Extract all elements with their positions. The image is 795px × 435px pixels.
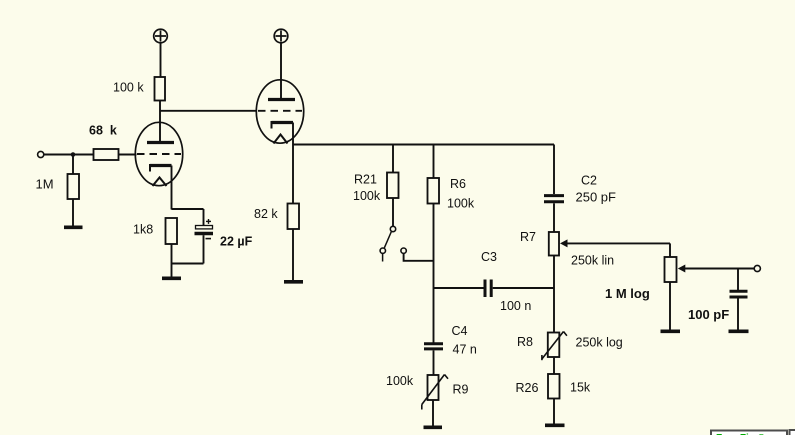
svg-text:C2: C2	[581, 174, 597, 188]
svg-text:1k8: 1k8	[133, 223, 153, 237]
wire R9 to ground	[432, 400, 434, 426]
wire 100k to V1 anode	[159, 101, 161, 143]
wire V1 anode to V2 grid	[160, 110, 257, 112]
wire 68k to V1 grid	[119, 154, 137, 156]
svg-text:47 n: 47 n	[453, 343, 477, 357]
resistor 100k (V1 anode load)	[155, 77, 166, 101]
wire R6 down to C4	[433, 204, 435, 343]
potentiometer R8	[542, 332, 567, 361]
output terminal J2	[754, 265, 760, 271]
svg-text:100 k: 100 k	[113, 81, 144, 95]
potentiometer R7	[549, 232, 670, 256]
wire R7 down to R8	[553, 256, 555, 333]
svg-text:22 µF: 22 µF	[220, 235, 253, 249]
wire junction to 100pF	[737, 269, 739, 291]
resistor R26	[548, 374, 560, 399]
svg-text:R9: R9	[453, 383, 469, 397]
wire C3 left	[434, 287, 484, 289]
wire C2 to R7	[553, 203, 555, 232]
svg-text:100k: 100k	[353, 189, 381, 203]
wire 100pF to ground	[737, 299, 739, 330]
svg-text:250 pF: 250 pF	[576, 190, 617, 205]
wire 1M to ground	[72, 199, 74, 226]
ground under 1M log	[661, 329, 681, 333]
svg-text:1 M log: 1 M log	[605, 286, 650, 301]
wire 82k to ground	[292, 229, 294, 280]
wire supply to V2 anode	[280, 43, 282, 99]
svg-text:100k: 100k	[386, 374, 414, 388]
svg-text:C3: C3	[481, 250, 497, 264]
watermark box bottom right	[711, 430, 795, 435]
ground under 100pF	[729, 329, 749, 333]
wire input to node A	[44, 154, 94, 156]
capacitor C4	[424, 344, 443, 349]
wire V1 cathode node	[172, 208, 204, 210]
ground under 1k8	[162, 276, 181, 280]
svg-text:100 n: 100 n	[500, 299, 531, 313]
wire pot bottom to ground	[669, 282, 671, 330]
supply terminal + (right)	[274, 29, 288, 43]
wire C3 right	[493, 287, 554, 289]
wire node A down to 1M	[72, 155, 74, 175]
svg-text:82 k: 82 k	[254, 207, 278, 221]
wire C4 to R9	[433, 350, 435, 375]
ground under R26	[545, 423, 565, 427]
wire cathode bottom joining	[172, 263, 204, 265]
capacitor 100pF	[730, 291, 748, 297]
svg-text:R21: R21	[354, 173, 377, 187]
wire main output bus	[293, 144, 554, 146]
svg-text:R6: R6	[450, 177, 466, 191]
wire R7 wiper to 1M log pot	[669, 243, 671, 257]
svg-text:250k lin: 250k lin	[571, 254, 614, 268]
potentiometer 1M log	[665, 257, 755, 282]
wire switch to R6 branch	[404, 253, 434, 260]
svg-text:C4: C4	[452, 324, 468, 338]
resistor 68k	[94, 149, 119, 160]
svg-text:100 pF: 100 pF	[688, 307, 729, 322]
capacitor C3	[485, 280, 491, 298]
wire cathode node to 22uF	[203, 209, 205, 226]
capacitor 22uF electrolytic	[195, 219, 214, 239]
triode V1	[135, 122, 182, 209]
switch S1	[380, 226, 406, 261]
node A junction dot	[71, 152, 76, 157]
resistor R21	[387, 173, 399, 199]
svg-text:250k log: 250k log	[576, 336, 623, 350]
wire supply to 100k	[160, 43, 162, 77]
svg-text:100k: 100k	[447, 197, 475, 211]
resistor 1k8	[166, 218, 178, 244]
wire bus to R21	[392, 145, 394, 173]
svg-text:1M: 1M	[36, 177, 54, 192]
svg-text:68 k: 68 k	[89, 124, 117, 138]
wire bus to R6	[433, 145, 435, 179]
supply terminal + (left)	[154, 29, 168, 43]
ground under 82k	[284, 280, 303, 284]
resistor 1M	[68, 174, 80, 199]
wire 1k8 down	[171, 244, 173, 277]
ground under R9	[424, 425, 443, 429]
wire bus corner down to C2	[553, 145, 555, 195]
ground under 1M	[64, 226, 83, 230]
wire 22uF down	[203, 235, 205, 263]
wire V2 cathode to 82k	[292, 145, 294, 204]
resistor 82k	[288, 204, 300, 230]
svg-text:R8: R8	[517, 335, 533, 349]
resistor R6	[428, 178, 440, 204]
input terminal J1	[38, 151, 44, 157]
trimmer R9	[422, 375, 448, 410]
triode V2	[256, 80, 303, 145]
svg-text:15k: 15k	[570, 381, 591, 395]
wire R8 to R26	[553, 357, 555, 374]
wire R26 to ground	[553, 399, 555, 424]
svg-text:R7: R7	[520, 230, 536, 244]
svg-text:R26: R26	[516, 381, 539, 395]
wire R21 to switch	[392, 198, 394, 226]
capacitor C2	[544, 196, 564, 202]
